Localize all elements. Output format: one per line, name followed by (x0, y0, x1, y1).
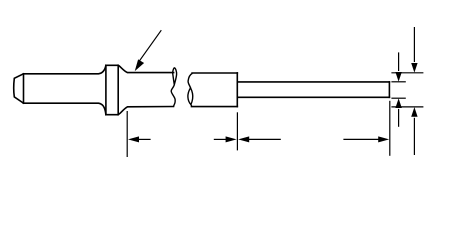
arrow C head (points left at ext line 2) (238, 136, 249, 142)
rod bottom extension line (391, 97, 405, 99)
dimension line B shaft (214, 138, 227, 140)
down arrow 2 shaft (413, 27, 415, 62)
extension line 2 below body end (236, 112, 238, 150)
arrow D head (points right at ext line 3) (378, 136, 389, 142)
right body piece top edge (192, 72, 237, 74)
rivet mandrel tip outline (14, 74, 24, 103)
rod (stem) bottom edge (237, 96, 389, 98)
left break squiggle (171, 68, 176, 107)
body top extension line (391, 72, 423, 74)
body right end (236, 73, 238, 107)
down arrow 1 head (points at rod top ext) (395, 72, 401, 82)
extension line 3 below rod end (389, 101, 391, 156)
right body piece bottom edge (192, 106, 238, 108)
up arrow 1 shaft (398, 109, 400, 127)
dimension line D shaft (343, 138, 379, 140)
leader line pointing at flange (139, 30, 162, 62)
rod top extension line (391, 81, 405, 83)
leader arrowhead (135, 60, 143, 71)
down arrow 2 head (points at body top ext) (411, 63, 417, 73)
body top edge from flange to break (118, 65, 173, 72)
up arrow 2 head (points at body bottom ext) (411, 107, 417, 117)
down arrow 1 shaft (398, 52, 400, 71)
rod right end (388, 82, 390, 97)
left break squiggle leaf line (173, 73, 175, 85)
up arrow 1 head (points at rod bottom ext) (395, 98, 401, 108)
body bottom edge from flange to break (118, 107, 173, 115)
rod (stem) top edge (237, 81, 389, 83)
body bottom extension line (391, 106, 423, 108)
arrow B head (points right at ext line 2) (226, 136, 237, 142)
stem bottom edge with fillet to flange (24, 103, 106, 115)
extension line 1 below flange (126, 111, 128, 157)
tip junction line (23, 74, 25, 103)
stem top edge with fillet to flange (24, 65, 106, 74)
dimension line C shaft (248, 138, 281, 140)
arrow A head (points left at ext line 1) (128, 136, 139, 142)
up arrow 2 shaft (413, 118, 415, 155)
dimension line A shaft (139, 138, 151, 140)
right break squiggle leaf line (191, 88, 193, 105)
right break squiggle (188, 74, 192, 106)
flange (rivet head) band (106, 65, 118, 114)
